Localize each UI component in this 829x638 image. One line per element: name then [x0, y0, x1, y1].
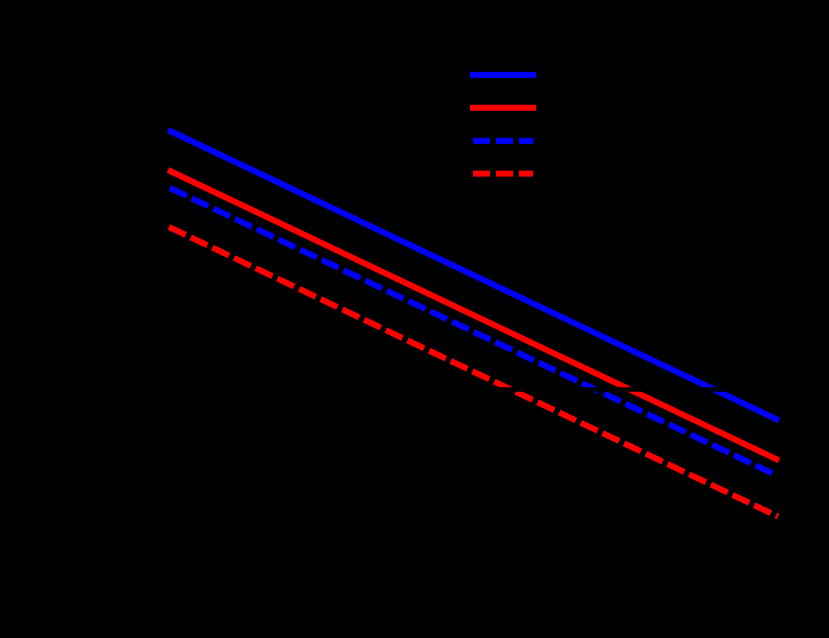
curve: red solid series — [168, 170, 779, 460]
legend sample: blue solid — [470, 72, 536, 78]
curve: blue solid series — [168, 130, 779, 420]
legend sample: red dashed — [473, 171, 533, 177]
legend sample: blue dashed — [473, 138, 533, 144]
curve: red dashed series — [169, 227, 778, 517]
curve: blue dashed series — [170, 188, 777, 476]
black horizontal occluder line (invisible reference line drawn on top) — [160, 387, 790, 392]
legend sample: red solid — [470, 105, 536, 111]
